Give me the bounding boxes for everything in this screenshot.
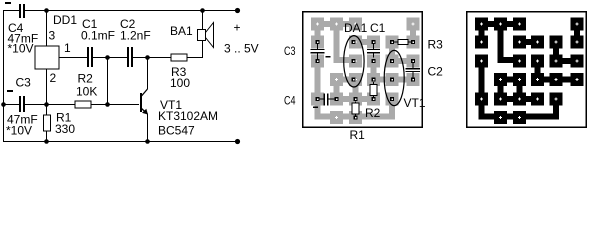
node junction base-left xyxy=(1,102,6,107)
capacitor C3 on board xyxy=(317,44,318,49)
capacitor C3 plates xyxy=(19,96,21,112)
wire DD1 pin3 vertical xyxy=(46,11,47,46)
svg-text:0.1mF: 0.1mF xyxy=(81,28,115,42)
resistor R1 on board xyxy=(355,102,356,104)
C3 minus polarity mark xyxy=(7,90,13,92)
node terminal plus xyxy=(235,8,240,13)
capacitor C2 on board xyxy=(413,63,414,68)
wire left vertical (minus bus) xyxy=(3,10,4,141)
svg-text:R2: R2 xyxy=(78,72,94,86)
node terminal minus xyxy=(235,139,240,144)
PCB copper-side board outline xyxy=(467,12,587,128)
svg-text:BC547: BC547 xyxy=(158,124,195,138)
node junction base xyxy=(105,102,110,107)
node junction emitter bottom xyxy=(145,139,150,144)
wire R1 leads xyxy=(46,104,47,115)
capacitor C2 plates xyxy=(127,47,129,67)
resistor R3 on board xyxy=(394,42,398,43)
PCB component-side copper traces xyxy=(311,18,420,125)
resistor R3 body xyxy=(171,54,187,61)
wire R3 to speaker xyxy=(187,57,203,58)
svg-text:2: 2 xyxy=(50,71,57,85)
svg-text:1.2nF: 1.2nF xyxy=(120,28,151,42)
wire bottom rail xyxy=(3,141,238,142)
node junction DD1 pin2 / R1 xyxy=(44,102,49,107)
svg-text:10K: 10K xyxy=(76,85,97,99)
resistor R1 body xyxy=(44,115,51,131)
svg-text:330: 330 xyxy=(55,122,75,136)
C4 minus polarity mark xyxy=(5,2,11,4)
svg-text:+: + xyxy=(234,21,241,35)
svg-text:100: 100 xyxy=(170,76,190,90)
C3 board minus mark xyxy=(326,56,331,58)
transistor VT1 xyxy=(140,89,148,115)
IC DA1 outline xyxy=(344,36,364,87)
resistor R2 body xyxy=(75,101,91,108)
PCB copper-side traces xyxy=(475,18,584,125)
node junction collector xyxy=(145,55,150,60)
wire top rail V+ xyxy=(3,10,19,11)
svg-text:C4: C4 xyxy=(284,94,296,108)
wire speaker to top rail xyxy=(202,11,203,29)
wire pin1 horizontal xyxy=(59,57,87,58)
svg-text:3: 3 xyxy=(49,29,56,43)
node junction R1 bottom xyxy=(44,139,49,144)
svg-text:C1: C1 xyxy=(370,21,386,35)
capacitor C4 plates xyxy=(19,4,21,18)
C4 board minus mark xyxy=(313,107,318,109)
svg-text:C3: C3 xyxy=(284,44,296,58)
IC DD1 box xyxy=(35,46,59,69)
svg-text:DD1: DD1 xyxy=(53,13,77,27)
svg-text:*10V: *10V xyxy=(8,42,34,56)
svg-text:C2: C2 xyxy=(428,65,444,79)
svg-text:1: 1 xyxy=(64,41,71,55)
svg-text:VT1: VT1 xyxy=(404,96,426,110)
node junction top at DD1 pin3 xyxy=(44,8,49,13)
svg-text:BA1: BA1 xyxy=(170,24,193,38)
wire junction down to base node xyxy=(107,57,108,104)
capacitor C1 plates xyxy=(87,47,89,67)
transistor VT1 outline xyxy=(384,50,404,105)
wire DD1 pin2 vertical xyxy=(46,69,47,104)
svg-text:R2: R2 xyxy=(365,106,381,120)
wire base rail xyxy=(3,104,19,105)
speaker BA1 symbol xyxy=(198,23,214,48)
svg-text:KT3102AM: KT3102AM xyxy=(158,109,218,123)
wire C1 to C2 xyxy=(93,57,127,58)
wire emitter vertical xyxy=(147,114,148,141)
svg-text:R3: R3 xyxy=(428,38,444,52)
PCB component-side board outline xyxy=(303,12,423,128)
wire C2 to R3 xyxy=(133,57,171,58)
svg-text:3 .. 5V: 3 .. 5V xyxy=(224,42,259,56)
node junction top at speaker xyxy=(200,8,205,13)
wire collector vertical xyxy=(147,58,148,89)
node junction C1-C2 xyxy=(105,55,110,60)
resistor R2 on board xyxy=(373,82,374,85)
capacitor C1 on board xyxy=(373,44,374,49)
svg-text:DA1: DA1 xyxy=(344,21,368,35)
svg-text:C3: C3 xyxy=(16,76,32,90)
capacitor C4 on board xyxy=(320,99,324,100)
svg-text:R1: R1 xyxy=(350,128,366,142)
svg-text:*10V: *10V xyxy=(6,124,32,138)
